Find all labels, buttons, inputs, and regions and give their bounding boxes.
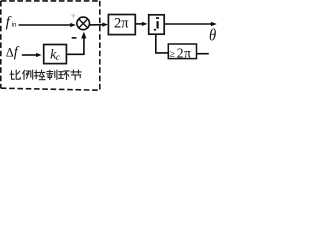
arrowhead up into mixer [81, 32, 86, 39]
arrowhead into mixer [70, 23, 76, 27]
phase wrap block >=2pi [168, 44, 196, 61]
stub wire from wrap block [197, 53, 209, 55]
minus sign [72, 37, 77, 39]
wire kc to mixer negative input [66, 38, 84, 54]
wire mixer to 2pi block [90, 24, 104, 26]
input label f_in [6, 15, 17, 31]
plus sign at summing junction [71, 13, 75, 18]
section label: hanzi jie (节) [71, 70, 81, 80]
wire f_in to mixer [19, 24, 72, 26]
svg-text:θ: θ [209, 27, 216, 45]
output arrowhead [211, 22, 217, 26]
dashed box (proportional control section) [1, 1, 100, 90]
svg-text:≥: ≥ [169, 49, 175, 60]
section label: hanzi kong (控) [35, 70, 45, 80]
section label: hanzi bi (比) [10, 70, 20, 79]
svg-text:c: c [56, 52, 60, 62]
block 2pi [108, 15, 135, 35]
feedback wire integrator to wrap block [156, 35, 168, 53]
svg-text:2π: 2π [177, 46, 192, 61]
arrowhead into kc block [36, 53, 41, 57]
svg-text:2π: 2π [114, 16, 129, 32]
mixer X cross [79, 19, 88, 28]
svg-text:Δf: Δf [6, 45, 20, 61]
section label: hanzi huan (环) [59, 71, 70, 80]
arrowhead into integrator [142, 22, 148, 26]
wire delta f to kc block [22, 54, 37, 56]
svg-text:in: in [11, 21, 17, 29]
summing junction mixer circle [77, 17, 90, 30]
integrator block [149, 15, 165, 34]
section label: hanzi zhi (制) [47, 70, 57, 80]
section label: hanzi li (例) [23, 70, 33, 80]
arrowhead into 2pi block [102, 23, 108, 27]
wire integrator to output [164, 23, 212, 25]
block kc [44, 45, 67, 64]
wire 2pi to integrator [135, 23, 142, 25]
